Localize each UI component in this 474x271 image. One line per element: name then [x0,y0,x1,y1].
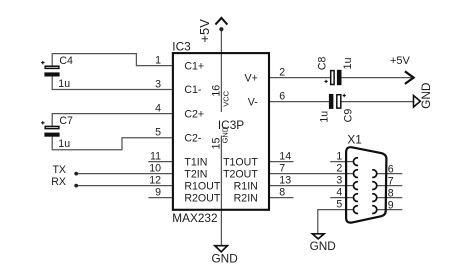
svg-text:C1+: C1+ [184,60,204,72]
svg-text:3: 3 [336,175,342,187]
svg-text:5: 5 [155,127,161,139]
svg-text:V-: V- [248,96,258,108]
svg-text:RX: RX [51,176,66,188]
svg-text:6: 6 [388,163,394,175]
svg-text:C8: C8 [316,56,328,70]
svg-text:9: 9 [388,199,394,211]
svg-text:12: 12 [149,175,161,187]
svg-text:V+: V+ [245,72,258,84]
svg-text:T2OUT: T2OUT [223,168,258,180]
svg-text:T1OUT: T1OUT [223,156,258,168]
svg-text:2: 2 [279,67,285,79]
svg-text:C9: C9 [343,109,355,123]
svg-text:R1OUT: R1OUT [184,180,220,192]
svg-text:+5V: +5V [390,55,411,67]
svg-text:GND: GND [212,252,238,266]
svg-text:1u: 1u [342,57,354,69]
svg-text:GND: GND [220,126,229,143]
svg-text:5: 5 [336,199,342,211]
svg-text:VCC: VCC [221,90,230,106]
svg-text:1u: 1u [58,78,70,90]
svg-text:7: 7 [279,163,285,175]
svg-text:14: 14 [279,151,291,163]
svg-text:1: 1 [336,151,342,163]
svg-text:T1IN: T1IN [184,156,207,168]
svg-text:C4: C4 [59,55,73,67]
svg-text:GND: GND [419,83,433,109]
svg-text:GND: GND [310,239,336,253]
svg-text:3: 3 [155,79,161,91]
svg-text:R1IN: R1IN [234,180,258,192]
svg-text:7: 7 [388,175,394,187]
svg-text:R2OUT: R2OUT [184,192,220,204]
svg-text:4: 4 [155,103,161,115]
svg-text:C7: C7 [59,115,73,127]
svg-text:R2IN: R2IN [234,192,258,204]
svg-text:11: 11 [150,151,161,163]
svg-text:IC3: IC3 [172,40,191,54]
svg-text:TX: TX [52,164,66,176]
svg-text:T2IN: T2IN [184,168,207,180]
svg-text:C2-: C2- [184,132,202,144]
svg-text:4: 4 [336,187,342,199]
svg-text:8: 8 [279,187,285,199]
svg-text:8: 8 [388,187,394,199]
svg-text:MAX232: MAX232 [172,211,217,225]
svg-text:6: 6 [279,91,285,103]
svg-text:1u: 1u [58,138,70,150]
svg-text:1: 1 [155,55,161,67]
svg-text:1u: 1u [319,111,331,123]
svg-text:+5V: +5V [197,19,212,43]
svg-text:2: 2 [336,163,342,175]
svg-text:10: 10 [149,163,161,175]
svg-text:9: 9 [155,187,161,199]
svg-text:X1: X1 [347,133,361,147]
svg-text:C1-: C1- [184,84,202,96]
svg-text:13: 13 [279,175,291,187]
svg-text:C2+: C2+ [184,108,204,120]
